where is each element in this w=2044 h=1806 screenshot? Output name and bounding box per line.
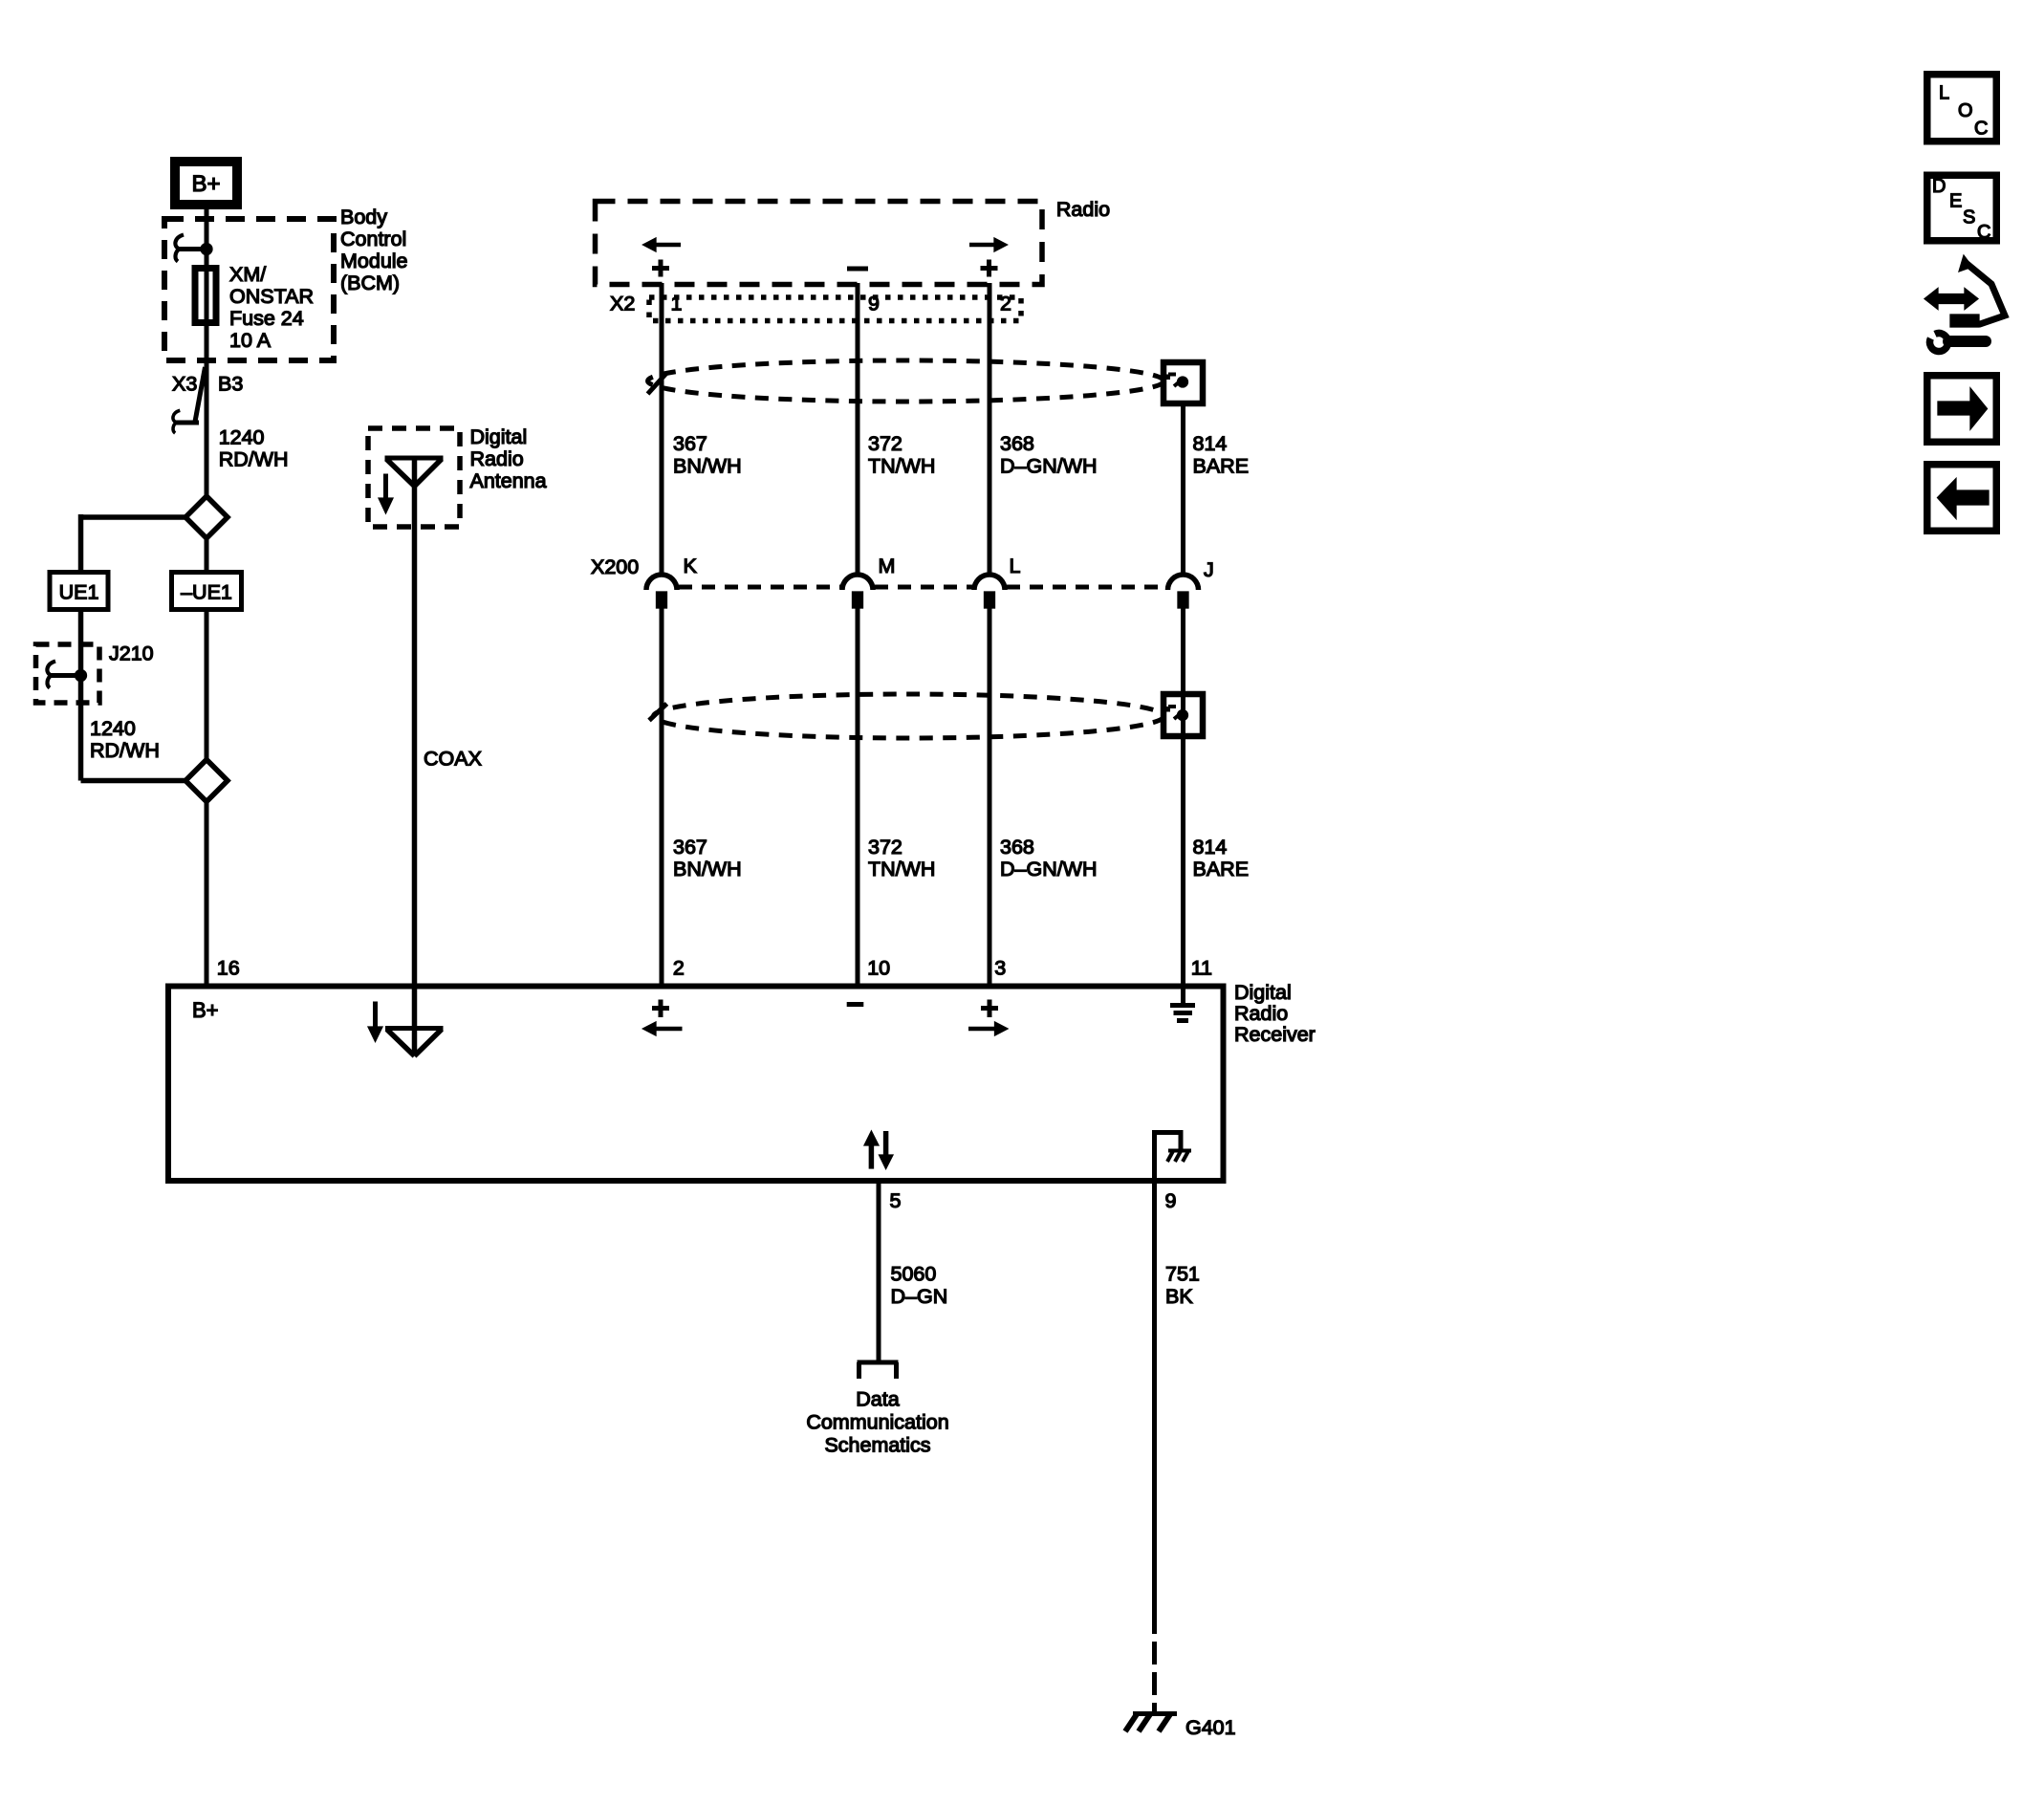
svg-text:B+: B+ bbox=[192, 998, 219, 1022]
svg-text:J210: J210 bbox=[109, 642, 154, 665]
svg-text:BK: BK bbox=[1165, 1285, 1193, 1308]
svg-text:BARE: BARE bbox=[1193, 454, 1250, 477]
svg-text:Data: Data bbox=[856, 1388, 899, 1411]
svg-text:814: 814 bbox=[1193, 836, 1228, 859]
svg-text:Schematics: Schematics bbox=[824, 1434, 930, 1457]
svg-text:(BCM): (BCM) bbox=[340, 272, 400, 294]
svg-text:372: 372 bbox=[868, 836, 902, 859]
svg-text:Control: Control bbox=[340, 228, 406, 250]
svg-text:1240: 1240 bbox=[90, 717, 136, 740]
svg-text:S: S bbox=[1963, 207, 1975, 228]
svg-text:Fuse 24: Fuse 24 bbox=[229, 307, 304, 330]
svg-text:11: 11 bbox=[1191, 957, 1212, 980]
svg-text:XM/: XM/ bbox=[229, 263, 266, 286]
svg-text:L: L bbox=[1939, 83, 1949, 104]
svg-text:D–GN/WH: D–GN/WH bbox=[1000, 454, 1098, 477]
svg-text:Radio: Radio bbox=[1056, 198, 1110, 221]
svg-text:D: D bbox=[1932, 176, 1946, 197]
svg-text:Radio: Radio bbox=[470, 447, 524, 470]
svg-text:2: 2 bbox=[1000, 293, 1011, 316]
svg-text:D–GN: D–GN bbox=[891, 1285, 948, 1308]
svg-text:O: O bbox=[1958, 100, 1973, 121]
svg-text:367: 367 bbox=[673, 432, 707, 455]
svg-text:5060: 5060 bbox=[891, 1263, 937, 1286]
svg-text:X2: X2 bbox=[610, 293, 635, 316]
svg-text:M: M bbox=[879, 555, 896, 577]
svg-text:9: 9 bbox=[868, 293, 880, 316]
svg-text:16: 16 bbox=[217, 957, 240, 980]
svg-text:B3: B3 bbox=[218, 373, 243, 396]
svg-text:Communication: Communication bbox=[806, 1411, 948, 1434]
svg-text:5: 5 bbox=[890, 1189, 902, 1212]
svg-text:RD/WH: RD/WH bbox=[90, 739, 160, 762]
svg-text:TN/WH: TN/WH bbox=[868, 858, 935, 881]
svg-text:G401: G401 bbox=[1185, 1716, 1236, 1739]
svg-text:ONSTAR: ONSTAR bbox=[229, 285, 314, 308]
svg-text:Digital: Digital bbox=[470, 425, 528, 448]
svg-text:BN/WH: BN/WH bbox=[673, 858, 742, 881]
svg-text:J: J bbox=[1204, 558, 1214, 581]
svg-text:367: 367 bbox=[673, 836, 707, 859]
svg-text:3: 3 bbox=[994, 957, 1006, 980]
svg-text:1240: 1240 bbox=[219, 426, 265, 449]
svg-text:1: 1 bbox=[671, 293, 683, 316]
svg-text:–UE1: –UE1 bbox=[181, 581, 232, 604]
svg-text:C: C bbox=[1974, 119, 1988, 140]
svg-text:BN/WH: BN/WH bbox=[673, 454, 742, 477]
svg-text:D–GN/WH: D–GN/WH bbox=[1000, 858, 1098, 881]
svg-text:TN/WH: TN/WH bbox=[868, 454, 935, 477]
svg-text:Receiver: Receiver bbox=[1234, 1023, 1316, 1046]
svg-text:814: 814 bbox=[1193, 432, 1228, 455]
svg-text:751: 751 bbox=[1165, 1263, 1200, 1286]
svg-text:Antenna: Antenna bbox=[470, 469, 547, 492]
svg-text:368: 368 bbox=[1000, 836, 1034, 859]
svg-text:L: L bbox=[1010, 555, 1021, 577]
svg-text:UE1: UE1 bbox=[59, 581, 99, 604]
svg-text:COAX: COAX bbox=[424, 748, 482, 771]
svg-text:368: 368 bbox=[1000, 432, 1034, 455]
svg-text:Module: Module bbox=[340, 250, 408, 272]
svg-text:372: 372 bbox=[868, 432, 902, 455]
svg-text:10 A: 10 A bbox=[229, 329, 272, 352]
svg-text:K: K bbox=[684, 555, 698, 577]
svg-text:E: E bbox=[1949, 191, 1962, 212]
svg-text:X3: X3 bbox=[172, 373, 197, 396]
svg-text:X200: X200 bbox=[591, 555, 639, 578]
svg-text:C: C bbox=[1977, 222, 1990, 243]
svg-text:Digital: Digital bbox=[1234, 981, 1292, 1004]
svg-text:B+: B+ bbox=[191, 171, 220, 197]
svg-text:RD/WH: RD/WH bbox=[219, 448, 289, 471]
svg-text:10: 10 bbox=[867, 957, 890, 980]
svg-text:BARE: BARE bbox=[1193, 858, 1250, 881]
svg-text:2: 2 bbox=[673, 957, 685, 980]
svg-text:Body: Body bbox=[340, 206, 387, 228]
svg-text:Radio: Radio bbox=[1234, 1002, 1288, 1025]
svg-text:9: 9 bbox=[1165, 1189, 1177, 1212]
